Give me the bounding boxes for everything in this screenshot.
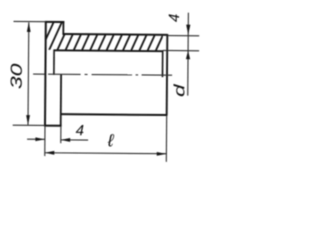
flange right lower edge bbox=[60, 74, 62, 126]
sleeve right edge bbox=[166, 34, 169, 115]
dim 30 bottom extension line bbox=[13, 124, 45, 126]
dim 30 top extension line bbox=[14, 20, 46, 22]
centerline bbox=[33, 74, 172, 75]
dim 4 bottom right arrow bbox=[61, 138, 70, 142]
wall dim down arrow bbox=[186, 25, 190, 35]
svg-text:4: 4 bbox=[76, 122, 84, 139]
svg-text:4: 4 bbox=[166, 14, 183, 22]
dim 30 line bbox=[27, 22, 30, 124]
svg-text:30: 30 bbox=[8, 64, 26, 90]
flange top edge bbox=[45, 21, 64, 23]
svg-text:d: d bbox=[172, 83, 189, 97]
wall dim extension line bottom bbox=[163, 49, 199, 51]
dim 30 bottom arrow bbox=[26, 115, 30, 125]
flange step edge bbox=[62, 21, 64, 35]
wall/bore dim line bbox=[187, 13, 190, 96]
dim 4 bottom left arrow bbox=[35, 137, 44, 141]
dim l left arrow bbox=[45, 151, 54, 155]
sleeve bottom edge bbox=[60, 113, 167, 116]
bore left end line bbox=[53, 50, 55, 75]
hatching of section bbox=[33, 21, 177, 51]
flange left edge bbox=[44, 21, 47, 126]
sleeve right extension below bbox=[165, 116, 167, 162]
bore right end line bbox=[161, 50, 163, 77]
dim 4 bottom right shaft bbox=[61, 139, 88, 141]
bore dim up arrow bbox=[186, 51, 190, 60]
dim l line bbox=[45, 152, 166, 155]
dim l right arrow bbox=[157, 152, 166, 156]
bore top line bbox=[54, 49, 164, 52]
wall dim extension line top bbox=[167, 35, 199, 37]
dim 4 bottom left shaft bbox=[27, 138, 44, 140]
flange right extension below bbox=[60, 126, 62, 143]
sleeve top edge bbox=[63, 33, 168, 36]
flange left extension below bbox=[44, 126, 46, 156]
dim 30 top arrow bbox=[27, 22, 31, 32]
flange bottom edge bbox=[44, 125, 61, 127]
